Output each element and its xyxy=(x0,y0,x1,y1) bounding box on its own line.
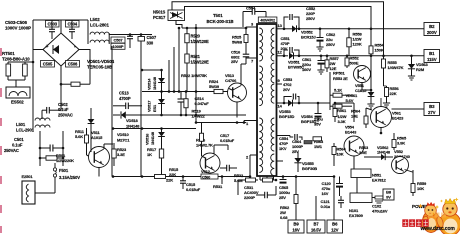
svg-text:T208-B80-A10: T208-B80-A10 xyxy=(2,57,30,62)
svg-text:C505: C505 xyxy=(43,61,53,66)
svg-text:1KV: 1KV xyxy=(279,146,287,151)
svg-text:BGF30B: BGF30B xyxy=(302,166,317,171)
svg-text:5W39: 5W39 xyxy=(209,84,220,89)
svg-text:L502: L502 xyxy=(90,17,100,22)
svg-text:B2: B2 xyxy=(429,24,435,29)
svg-text:VD510: VD510 xyxy=(117,132,130,137)
svg-text:E2501: E2501 xyxy=(22,174,34,179)
svg-text:VD516: VD516 xyxy=(145,133,150,145)
svg-text:B7: B7 xyxy=(314,221,320,226)
svg-text:BGP15D: BGP15D xyxy=(279,114,295,119)
svg-text:0.68: 0.68 xyxy=(280,215,288,220)
svg-text:+: + xyxy=(46,44,49,50)
svg-text:R522 1/4W75K: R522 1/4W75K xyxy=(181,73,207,78)
svg-text:VD501-VD504: VD501-VD504 xyxy=(87,59,115,64)
svg-text:0.015uF: 0.015uF xyxy=(186,187,201,192)
svg-text:EA7812: EA7812 xyxy=(372,177,387,182)
svg-text:VD517: VD517 xyxy=(147,101,152,112)
svg-text:9V: 9V xyxy=(386,195,391,200)
svg-text:35V: 35V xyxy=(314,121,321,126)
svg-text:F501: F501 xyxy=(59,168,69,173)
svg-text:12V: 12V xyxy=(331,227,339,232)
svg-text:C513: C513 xyxy=(119,91,129,96)
svg-text:330: 330 xyxy=(147,41,154,46)
svg-text:22K: 22K xyxy=(166,178,173,183)
svg-text:EA7809: EA7809 xyxy=(349,213,364,218)
svg-text:LCL-2801: LCL-2801 xyxy=(90,23,109,28)
svg-text:0.015uF: 0.015uF xyxy=(220,138,235,143)
svg-text:B1: B1 xyxy=(429,51,435,56)
svg-text:N501S: N501S xyxy=(153,10,166,15)
svg-text:10K: 10K xyxy=(337,151,344,156)
svg-text:B1443: B1443 xyxy=(345,129,357,134)
svg-text:25V: 25V xyxy=(231,59,238,64)
svg-text:1/2W120E: 1/2W120E xyxy=(191,59,210,64)
svg-text:10K: 10K xyxy=(417,186,424,191)
svg-text:R2M: R2M xyxy=(416,67,425,72)
svg-text:1/2W220K: 1/2W220K xyxy=(56,158,74,163)
svg-text:5W68: 5W68 xyxy=(232,40,243,45)
svg-text:VD518: VD518 xyxy=(126,118,139,123)
svg-text:C4706: C4706 xyxy=(225,78,237,83)
svg-text:120K: 120K xyxy=(353,41,362,46)
svg-text:C507: C507 xyxy=(147,35,157,40)
svg-text:5.6V: 5.6V xyxy=(346,98,354,103)
svg-text:3.9K: 3.9K xyxy=(397,140,405,145)
svg-text:25V: 25V xyxy=(279,195,286,200)
svg-text:www.dzsc.com: www.dzsc.com xyxy=(420,226,456,232)
svg-text:200V: 200V xyxy=(427,30,437,35)
svg-text:5.1K: 5.1K xyxy=(334,88,342,93)
svg-text:1/2W120E: 1/2W120E xyxy=(191,39,210,44)
svg-text:1/4W2.7K: 1/4W2.7K xyxy=(196,143,213,148)
svg-text:500E: 500E xyxy=(350,60,359,65)
svg-text:RP501: RP501 xyxy=(333,71,346,76)
svg-text:3.3E: 3.3E xyxy=(117,152,125,157)
svg-text:T501: T501 xyxy=(213,13,223,18)
svg-text:1/4W47K: 1/4W47K xyxy=(388,65,404,70)
svg-text:B9: B9 xyxy=(293,221,299,226)
svg-text:LCL-2901: LCL-2901 xyxy=(16,127,35,132)
svg-text:BCR15J: BCR15J xyxy=(301,34,316,39)
svg-text:1/4W22: 1/4W22 xyxy=(192,114,206,119)
svg-text:16V: 16V xyxy=(322,191,329,196)
svg-text:5.6K: 5.6K xyxy=(75,134,83,139)
svg-text:B3: B3 xyxy=(429,104,435,109)
svg-text:250VAC: 250VAC xyxy=(4,148,19,153)
svg-text:150K: 150K xyxy=(375,47,384,52)
svg-text:L501: L501 xyxy=(16,122,26,127)
svg-text:1N4148: 1N4148 xyxy=(126,123,140,128)
svg-text:3.15A/250V: 3.15A/250V xyxy=(59,175,80,180)
svg-text:C506: C506 xyxy=(68,61,78,66)
svg-text:BCK-200-S1B: BCK-200-S1B xyxy=(207,19,234,24)
svg-text:ES1: ES1 xyxy=(152,104,157,112)
svg-text:4700P: 4700P xyxy=(119,96,131,101)
svg-text:2200P: 2200P xyxy=(244,195,255,200)
svg-text:250V: 250V xyxy=(306,16,315,21)
svg-text:1K: 1K xyxy=(147,152,152,157)
svg-text:1N4148: 1N4148 xyxy=(377,150,391,155)
svg-text:3.9E: 3.9E xyxy=(359,150,367,155)
svg-text:250VAC: 250VAC xyxy=(58,112,73,117)
svg-text:115V: 115V xyxy=(427,57,437,62)
svg-text:R531: R531 xyxy=(213,184,223,189)
svg-text:A1015: A1015 xyxy=(91,135,103,140)
svg-text:ES502: ES502 xyxy=(11,100,24,105)
svg-text:400V4702: 400V4702 xyxy=(260,18,275,22)
svg-text:TERC05-10B: TERC05-10B xyxy=(87,65,112,70)
svg-text:1W1: 1W1 xyxy=(314,144,323,149)
svg-text:3.3K: 3.3K xyxy=(338,119,346,124)
svg-text:M27C1: M27C1 xyxy=(117,137,130,142)
svg-text:1N4148: 1N4148 xyxy=(152,76,157,90)
svg-text:C503: C503 xyxy=(47,21,57,26)
svg-text:470u16V: 470u16V xyxy=(372,208,388,213)
svg-text:1N4148: 1N4148 xyxy=(150,131,155,145)
svg-text:10E: 10E xyxy=(351,113,358,118)
svg-text:20V: 20V xyxy=(283,87,290,92)
svg-text:1000P: 1000P xyxy=(113,44,124,49)
svg-text:C501: C501 xyxy=(14,137,24,142)
svg-text:C503-C506: C503-C506 xyxy=(5,20,28,25)
svg-text:27V: 27V xyxy=(428,110,436,115)
svg-text:22K: 22K xyxy=(390,91,397,96)
svg-text:VD514: VD514 xyxy=(147,78,152,90)
svg-text:C507: C507 xyxy=(113,38,123,43)
svg-text:0.047uF: 0.047uF xyxy=(195,101,210,106)
svg-text:0.01u: 0.01u xyxy=(321,204,331,209)
svg-text:C554: C554 xyxy=(246,6,256,11)
svg-text:C504: C504 xyxy=(67,21,77,26)
svg-text:R561: R561 xyxy=(337,108,347,113)
svg-text:B1423: B1423 xyxy=(392,115,404,120)
svg-text:RT501: RT501 xyxy=(2,51,15,56)
svg-text:C560: C560 xyxy=(202,175,210,179)
svg-text:250V: 250V xyxy=(326,42,335,47)
svg-text:1000V 1000P: 1000V 1000P xyxy=(5,26,31,31)
svg-text:16.5V: 16.5V xyxy=(311,227,321,232)
svg-text:0.1uF: 0.1uF xyxy=(12,143,23,148)
svg-text:B6: B6 xyxy=(332,221,338,226)
svg-text:PC817: PC817 xyxy=(153,15,166,20)
svg-text:160V: 160V xyxy=(302,67,311,72)
svg-text:16V: 16V xyxy=(292,227,300,232)
svg-text:R553 2E: R553 2E xyxy=(333,76,348,81)
